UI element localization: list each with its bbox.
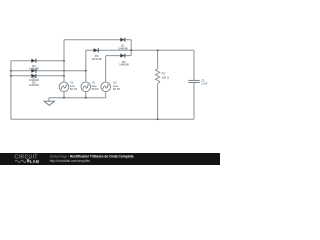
svg-text:100 Ω: 100 Ω xyxy=(162,75,169,79)
svg-text:V2: V2 xyxy=(92,81,96,85)
CircuitLab logo xyxy=(15,155,40,165)
wire row3 phase3 lower-diode wire xyxy=(11,75,64,77)
wire V1 bottom stub xyxy=(63,92,65,98)
svg-text:60 Hz: 60 Hz xyxy=(113,87,121,91)
wire phase1 riser xyxy=(63,40,65,82)
diode D1 (top) xyxy=(120,38,125,42)
svg-text:R1: R1 xyxy=(162,72,166,76)
svg-text:LAB: LAB xyxy=(30,159,40,164)
capacitor C1 plates xyxy=(188,80,200,82)
svg-text:1 mF: 1 mF xyxy=(201,81,208,85)
wire D1 cathode drop xyxy=(130,40,132,56)
voltage source V3 xyxy=(101,82,111,92)
svg-text:http://circuitlab.com/cmg4bto: http://circuitlab.com/cmg4bto xyxy=(50,159,91,163)
svg-text:1N4148: 1N4148 xyxy=(119,63,129,67)
wire row1 phase1 lower-diode wire xyxy=(11,60,64,62)
wire phase2 riser xyxy=(85,50,87,81)
wire negative bus vertical xyxy=(10,61,12,120)
svg-text:dcalvomayo / Rectificador Trif: dcalvomayo / Rectificador Trifásico de O… xyxy=(50,154,134,158)
wire V2 bottom stub xyxy=(85,92,87,98)
diode D6 (left row3) xyxy=(31,74,36,78)
svg-text:60 Hz: 60 Hz xyxy=(70,87,78,91)
wire row2 phase2 lower-diode wire xyxy=(11,70,86,72)
wire sources common xyxy=(49,97,106,99)
diode D5 (left row2) xyxy=(31,69,36,73)
wire R1 branch vertical lower xyxy=(157,84,159,120)
resistor R1 zigzag xyxy=(155,69,159,84)
voltage source V2 xyxy=(81,82,91,92)
wire R1 branch vertical upper xyxy=(157,50,159,69)
wire C1 branch vertical upper xyxy=(193,50,195,80)
wire bottom negative rail xyxy=(11,118,194,120)
svg-text:1N4148: 1N4148 xyxy=(118,47,128,51)
ground symbol xyxy=(44,101,54,105)
svg-text:1N4148: 1N4148 xyxy=(92,57,102,61)
svg-text:1N4148: 1N4148 xyxy=(29,83,39,87)
diode D2 (phase3 top diode) xyxy=(120,54,125,58)
svg-text:1N4148: 1N4148 xyxy=(29,67,39,71)
wire top phase1 to D1 xyxy=(64,39,131,41)
wire phase3 riser xyxy=(105,56,107,82)
wire ground stub xyxy=(48,98,50,101)
wire C1 branch vertical lower xyxy=(193,83,195,119)
wire D2 anode wire xyxy=(106,55,132,57)
junction dots xyxy=(10,49,159,120)
footer text xyxy=(50,154,134,163)
diode D3 (middle, positive bus) xyxy=(94,48,99,52)
diode D4 (left row1) xyxy=(31,59,36,63)
component labels xyxy=(29,43,208,91)
wire V3 bottom stub xyxy=(105,92,107,98)
footer bar xyxy=(0,153,220,165)
voltage source V1 xyxy=(59,82,69,92)
svg-text:60 Hz: 60 Hz xyxy=(92,87,100,91)
wire positive bus xyxy=(86,49,194,51)
svg-text:V3: V3 xyxy=(113,81,117,85)
svg-text:V1: V1 xyxy=(70,81,74,85)
